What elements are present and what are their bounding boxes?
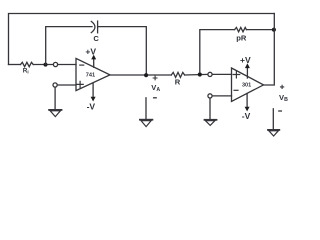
wire R to node <box>185 73 208 76</box>
resistor pR <box>235 27 247 31</box>
wire VA reference stub <box>145 98 147 119</box>
wire capacitor to output node <box>98 27 147 76</box>
resistor Ri <box>21 62 34 66</box>
U2 plus sign <box>233 71 240 78</box>
terminal circle op-amp U1 inverting input <box>53 62 57 66</box>
wire circle to U2 - input <box>212 95 231 97</box>
ground (VB reference) <box>268 129 279 131</box>
terminal circle U2 non-inverting input <box>208 72 212 76</box>
U1 +V supply arrow <box>93 58 95 68</box>
U1 minus sign <box>80 64 84 66</box>
VA minus polarity mark <box>154 97 157 99</box>
svg-text:VB: VB <box>279 93 288 103</box>
wire VB reference stub <box>272 109 274 130</box>
ground (VA reference) <box>140 119 153 121</box>
svg-text:VA: VA <box>151 83 160 93</box>
wire U2 - input to ground <box>209 98 211 119</box>
svg-text:+V: +V <box>240 55 251 65</box>
op-amp U1 741 triangle <box>76 58 110 90</box>
svg-text:C: C <box>93 34 99 43</box>
VB plus polarity mark <box>281 85 284 88</box>
wire circle to U1 + input <box>57 84 76 86</box>
capacitor C straight plate <box>97 21 99 33</box>
wire to U1 - input <box>58 64 76 66</box>
wire pR to right rail <box>246 29 274 31</box>
wire Ri to node <box>33 64 53 66</box>
U1 -V supply arrow <box>92 84 94 98</box>
VA plus polarity mark <box>153 76 157 80</box>
terminal circle U2 inverting input <box>208 94 212 98</box>
U2 -V supply arrow <box>246 94 248 108</box>
U2 minus sign <box>234 89 238 91</box>
ground (U2 - input) <box>205 119 217 121</box>
node junction (pR / right rail) <box>272 28 276 32</box>
svg-text:741: 741 <box>86 72 95 78</box>
node junction VA (cap feedback tap) <box>144 73 148 77</box>
ground (U1 + input) <box>49 109 61 111</box>
wire U2 output to right rail <box>264 14 275 86</box>
svg-text:301: 301 <box>242 83 251 89</box>
svg-text:R: R <box>175 78 181 87</box>
svg-text:-V: -V <box>242 111 251 121</box>
U2 +V supply arrow <box>246 67 248 79</box>
U1 plus sign <box>77 81 83 87</box>
wire U1 + input to ground <box>54 87 56 109</box>
wire U1 output to R <box>110 74 171 76</box>
wire capacitor feedback left vertical <box>46 27 92 65</box>
svg-text:-V: -V <box>87 101 96 111</box>
svg-text:Ri: Ri <box>23 68 29 75</box>
wire to U2 + input <box>212 73 231 75</box>
svg-text:+V: +V <box>85 46 96 56</box>
terminal circle U1 non-inverting input <box>53 83 57 87</box>
capacitor C curved plate <box>91 21 95 32</box>
resistor R <box>171 72 184 77</box>
wire Ri input segment <box>9 64 21 66</box>
node junction (R / pR tap) <box>198 72 202 76</box>
VB minus polarity mark <box>279 110 282 112</box>
wire pR feedback left vertical <box>200 30 235 73</box>
wire top feedback rail <box>9 14 275 65</box>
op-amp U2 301 triangle <box>232 68 264 101</box>
svg-text:pR: pR <box>236 33 247 42</box>
node junction (Ri / C feedback) <box>44 63 48 67</box>
